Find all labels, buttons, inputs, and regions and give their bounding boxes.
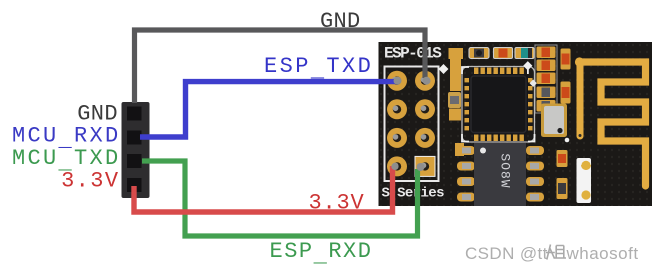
pin label GND (header) bbox=[77, 102, 118, 127]
left pins bbox=[465, 78, 472, 130]
svg-text:3.3V: 3.3V bbox=[309, 191, 365, 216]
svg-text:ESP_RXD: ESP_RXD bbox=[270, 239, 373, 268]
ESP-01S module PCB bbox=[379, 42, 653, 206]
antenna feed via bbox=[575, 57, 584, 139]
wire ESP_TXD (blue) bbox=[140, 77, 402, 137]
wire ESP_RXD (green) bbox=[142, 161, 425, 236]
resistor R5 (right column stack 3) bbox=[537, 73, 556, 85]
header J1 pin 3 (MCU_TXD) bbox=[127, 154, 142, 168]
silkscreen S Series bbox=[382, 186, 445, 202]
inductor L1 (top row) bbox=[469, 48, 489, 59]
wire 3.3V (red) bbox=[134, 163, 399, 212]
antenna meander bbox=[580, 62, 646, 186]
header J1 pin 1 (GND) bbox=[127, 107, 142, 121]
svg-text:SO8W: SO8W bbox=[498, 153, 513, 188]
pin label 3.3V (header) bbox=[61, 169, 119, 194]
silkscreen pad box bbox=[385, 67, 439, 182]
resistor R3 (right column stack 1) bbox=[537, 47, 556, 59]
resistor R4 (right column stack 2) bbox=[537, 60, 556, 72]
pad P6 (row3 col2) bbox=[415, 128, 435, 148]
silkscreen box around stack bbox=[535, 45, 557, 113]
pad P3 (row2 col1) bbox=[387, 99, 407, 119]
silkscreen diamond marker bbox=[439, 64, 449, 74]
resistor R2 (top row) bbox=[494, 48, 513, 59]
pad P1 (row1 col1, ESP TXD) bbox=[387, 71, 407, 91]
watermark bbox=[465, 244, 639, 263]
LED D1 (white body) bbox=[577, 158, 592, 203]
top pins bbox=[474, 68, 524, 75]
silkscreen diamond marker 2 bbox=[530, 80, 537, 87]
svg-text:whaosoft: whaosoft bbox=[566, 244, 639, 263]
right gull pins bbox=[526, 146, 544, 202]
flash chip U2 SO8W bbox=[457, 143, 544, 206]
net label ESP_TXD bbox=[264, 54, 373, 83]
capacitor C5 (right column stack 4) bbox=[537, 87, 556, 99]
pad P8 (row4 col2, ESP RXD, square pin-1 pad) bbox=[415, 156, 435, 176]
silkscreen corner brackets bbox=[462, 67, 469, 74]
capacitor C7 (vertical, bottom) bbox=[557, 178, 568, 199]
pad P5 (row3 col1) bbox=[387, 128, 407, 148]
pad P4 (row2 col2) bbox=[415, 99, 435, 119]
op chip U1 ESP8266 QFN bbox=[462, 61, 535, 142]
net label ESP_RXD bbox=[270, 239, 373, 268]
resistor R7 (vertical, right of stack lower) bbox=[561, 82, 571, 104]
crystal Y1 bbox=[541, 104, 569, 143]
gold trace C1 area (left column) bbox=[449, 48, 464, 91]
svg-text:3.3V: 3.3V bbox=[61, 169, 119, 194]
svg-text:GND: GND bbox=[320, 9, 361, 34]
resistor R8 (below right column) bbox=[557, 150, 568, 167]
resistor R1 (left column small) bbox=[448, 92, 461, 108]
resistor R6 (vertical, right of stack) bbox=[561, 49, 571, 70]
pin label MCU_TXD bbox=[12, 146, 121, 175]
header J1 body bbox=[122, 102, 150, 198]
capacitor C2 (left column gold) bbox=[449, 109, 461, 121]
header J1 pin 4 (3.3V) bbox=[127, 178, 142, 192]
CJK glyph jie bbox=[546, 245, 566, 260]
svg-text:ESP_TXD: ESP_TXD bbox=[264, 54, 373, 83]
capacitor C3 (left lower gold) bbox=[455, 143, 464, 156]
svg-text:CSDN @tt: CSDN @tt bbox=[465, 244, 548, 263]
pin label MCU_RXD bbox=[12, 124, 121, 153]
silkscreen label ESP-01S bbox=[384, 45, 442, 63]
pad P7 (row4 col1, 3.3V) bbox=[387, 156, 407, 176]
wire GND (black) bbox=[135, 30, 431, 103]
header J1 pin 2 (MCU_RXD) bbox=[127, 131, 142, 145]
left gull pins bbox=[457, 146, 475, 202]
pad P2 (row1 col2, GND) bbox=[415, 71, 435, 91]
right pins bbox=[526, 78, 533, 130]
bottom pins bbox=[474, 134, 524, 141]
capacitor C6 (right column stack 5) bbox=[537, 100, 556, 112]
net label 3.3V (middle) bbox=[309, 191, 365, 216]
capacitor C4 (top row, teal mark) bbox=[515, 48, 534, 59]
svg-text:ESP-01S: ESP-01S bbox=[384, 45, 442, 63]
net label GND (top) bbox=[320, 9, 361, 34]
